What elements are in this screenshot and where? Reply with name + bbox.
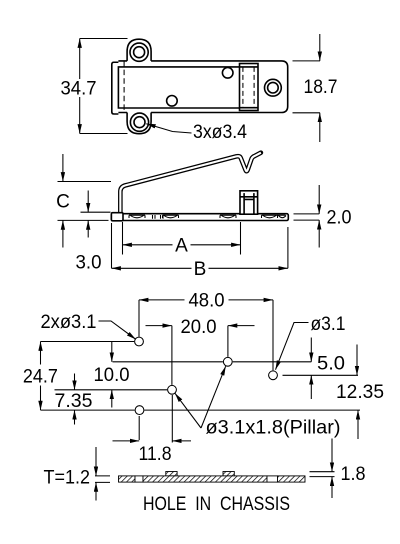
dimension 18.7 arrows xyxy=(319,34,321,61)
plan latch slider rectangle xyxy=(240,64,259,111)
dimension 1.8 arrows xyxy=(331,439,333,472)
extension line H3 level xyxy=(283,374,359,376)
dimension B lines and arrows xyxy=(112,267,192,269)
hole H1 top-left xyxy=(135,337,144,346)
dimension 2.0 arrows xyxy=(318,185,320,214)
hole H3 right xyxy=(269,371,278,380)
svg-text:11.8: 11.8 xyxy=(139,444,172,465)
chassis bar segment 2 xyxy=(143,476,267,482)
dimension 5.0 arrows xyxy=(310,338,312,362)
svg-text:3.0: 3.0 xyxy=(76,253,102,274)
dimension 2.0 extension lines xyxy=(294,214,320,220)
plan bottom ear hole xyxy=(130,113,148,131)
chassis pillar bump left xyxy=(166,472,177,476)
dimension T=1.2 arrows xyxy=(95,447,97,476)
svg-text:3xø3.4: 3xø3.4 xyxy=(193,122,247,143)
svg-text:2.0: 2.0 xyxy=(327,208,352,229)
side plate hole cup at column 2 xyxy=(163,215,179,218)
dimension 7.35 arrows xyxy=(74,374,76,390)
plan pillar dimple right xyxy=(222,68,233,79)
side base plate xyxy=(111,214,288,221)
side latch post xyxy=(240,191,258,214)
label O3.1 leader xyxy=(276,323,309,370)
side lever arm (double line via white overlay) xyxy=(120,153,261,214)
plan latch hidden dashed lines xyxy=(243,67,254,108)
svg-text:48.0: 48.0 xyxy=(189,290,225,311)
svg-text:ø3.1: ø3.1 xyxy=(311,314,346,335)
side plate rivet ticks xyxy=(153,215,164,219)
svg-text:T=1.2: T=1.2 xyxy=(44,468,91,489)
dimension A lines and arrows xyxy=(123,244,173,246)
dimension 12.35 arrows xyxy=(356,345,358,376)
side latch post cap and inner lines xyxy=(240,193,258,214)
dimension C arrows xyxy=(62,154,64,182)
dimension 1.8 extension lines xyxy=(310,472,335,477)
dimension 20.0 arrows xyxy=(146,325,172,327)
plan fold inner lines xyxy=(118,67,239,108)
side plate hole cup at column 3 xyxy=(220,215,236,218)
extension line H1 level xyxy=(41,341,135,343)
extension line H2 level xyxy=(113,361,312,363)
chassis bar cross-section with hatch xyxy=(119,472,306,483)
side plate end tab cup xyxy=(277,215,286,218)
dimension 10.0 arrows xyxy=(111,342,113,362)
dimension A extension lines xyxy=(123,222,241,255)
label 3xO3.4 leader xyxy=(146,124,191,133)
extension line H5 level xyxy=(41,409,361,411)
svg-text:7.35: 7.35 xyxy=(55,391,93,412)
side plate hole cup at column 4 xyxy=(262,215,278,218)
dimension 24.7 line and arrows xyxy=(40,342,42,365)
label 2xO3.1 leader xyxy=(99,321,136,339)
hole H2 center xyxy=(223,357,232,366)
dimension 34.7 extension lines xyxy=(80,39,128,134)
extension line H4 level xyxy=(55,389,168,391)
svg-text:ø3.1x1.8(Pillar): ø3.1x1.8(Pillar) xyxy=(206,418,341,439)
side lever foot pad xyxy=(111,213,123,221)
chassis bar hole window 2 xyxy=(267,476,278,482)
dimension T=1.2 extension lines xyxy=(95,476,110,483)
plan top ear tab xyxy=(127,39,151,61)
dimension 34.7 line and arrows xyxy=(79,39,81,80)
chassis bar segment 3 xyxy=(278,476,306,482)
dimension C extension lines xyxy=(58,182,112,221)
plan left flange xyxy=(112,62,119,114)
plan fold hidden dashed line xyxy=(123,61,125,113)
side plate hole cup at column 1 xyxy=(129,215,145,218)
svg-text:5.0: 5.0 xyxy=(317,354,345,375)
svg-text:C: C xyxy=(56,192,70,213)
plan body outline xyxy=(118,61,287,113)
dimension B extension lines xyxy=(112,223,288,268)
svg-text:1.8: 1.8 xyxy=(341,464,366,485)
svg-text:B: B xyxy=(194,259,207,280)
svg-text:20.0: 20.0 xyxy=(181,317,217,338)
dimension 3.0 arrows xyxy=(87,191,89,213)
chassis bar segment 1 xyxy=(119,476,136,482)
svg-text:34.7: 34.7 xyxy=(61,78,97,99)
plan pillar dimple left xyxy=(167,96,178,107)
dimension 18.7 extension lines xyxy=(293,61,321,113)
hole H5 bottom-left xyxy=(135,406,144,415)
label Pillar leader to H2 xyxy=(201,366,226,428)
dimension 48.0 extension lines xyxy=(139,300,273,371)
svg-text:HOLE IN CHASSIS: HOLE IN CHASSIS xyxy=(143,494,290,515)
label Pillar leader to H4 xyxy=(175,393,201,428)
dimension 20.0 extension lines xyxy=(172,326,228,385)
chassis bar hole window 1 xyxy=(135,476,143,482)
dimension 3.0 extension line xyxy=(81,211,111,213)
plan bottom ear tab xyxy=(127,113,151,134)
hole H4 middle xyxy=(168,385,177,394)
plan top ear hole xyxy=(130,43,148,61)
svg-text:2xø3.1: 2xø3.1 xyxy=(41,312,97,333)
svg-text:10.0: 10.0 xyxy=(94,365,130,386)
plan right tab hole xyxy=(265,79,282,96)
dimension 11.8 extension lines xyxy=(139,395,172,443)
svg-text:24.7: 24.7 xyxy=(23,366,58,387)
chassis pillar bump right xyxy=(223,472,234,476)
dimension 11.8 arrows xyxy=(113,440,140,442)
svg-text:18.7: 18.7 xyxy=(304,77,338,98)
svg-text:A: A xyxy=(175,235,188,256)
plan latch fold lines xyxy=(240,67,259,108)
svg-text:12.35: 12.35 xyxy=(336,382,384,403)
dimension 48.0 lines and arrows xyxy=(139,299,185,301)
